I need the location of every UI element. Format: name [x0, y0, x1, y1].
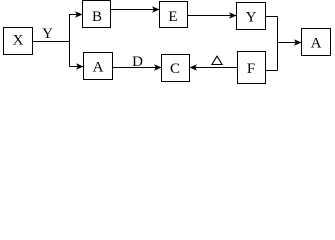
block B — [83, 1, 111, 28]
block F — [238, 52, 266, 84]
svg-text:X: X — [13, 33, 24, 49]
block Y — [237, 3, 266, 30]
arrowhead into B — [75, 11, 83, 17]
arrowhead into C from F — [190, 64, 198, 70]
arrowhead into Y — [229, 12, 237, 18]
arrowhead into A right — [294, 39, 302, 45]
block A right — [302, 29, 331, 56]
svg-text:D: D — [132, 54, 143, 70]
label delta (outline triangle) on wire — [212, 56, 222, 64]
wire E to Y — [188, 15, 237, 17]
arrowhead into A bottom-left — [76, 63, 84, 69]
svg-text:B: B — [92, 9, 102, 25]
wire fork vertical — [69, 14, 71, 67]
wire F to C — [189, 67, 238, 69]
svg-text:A: A — [311, 36, 322, 52]
block C — [162, 55, 190, 82]
svg-text:A: A — [93, 60, 104, 76]
wire junction to A right — [278, 42, 302, 44]
svg-text:F: F — [247, 61, 255, 77]
arrowhead into C from A — [154, 64, 162, 70]
svg-text:Y: Y — [246, 10, 257, 26]
wire X output — [33, 41, 70, 43]
svg-text:Y: Y — [42, 26, 53, 42]
wire fork to B — [69, 14, 82, 16]
wire fork to A — [70, 66, 84, 68]
wire Y output — [266, 16, 278, 18]
block E — [160, 2, 188, 28]
svg-text:C: C — [170, 61, 180, 77]
wire B to E — [111, 9, 160, 11]
block X — [4, 28, 33, 55]
wire right vertical — [277, 17, 279, 71]
block A bottom-left — [84, 53, 113, 80]
wire F output right — [266, 70, 278, 72]
wire A to C — [113, 67, 162, 69]
arrowhead into E — [152, 6, 160, 12]
svg-text:E: E — [168, 9, 177, 25]
